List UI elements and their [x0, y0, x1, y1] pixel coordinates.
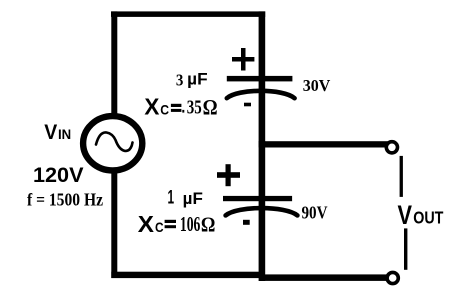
C2 plus sign — [217, 164, 240, 186]
wire right branch upper (top rail through C1 to middle node) — [259, 11, 266, 147]
wire middle node to output terminal — [259, 141, 388, 147]
capacitor C1 flat plate — [227, 76, 293, 82]
svg-text:106: 106 — [180, 212, 201, 236]
svg-text:µF: µF — [187, 69, 207, 88]
label VOUT — [398, 200, 444, 230]
svg-text:Ω: Ω — [201, 213, 216, 237]
svg-text:X: X — [144, 93, 160, 119]
wire right branch lower (middle node through C2 to bottom rail) — [259, 141, 266, 281]
label VIN — [44, 120, 71, 144]
svg-text:f = 1500 Hz: f = 1500 Hz — [27, 190, 103, 210]
label XC=.35 ohm — [144, 93, 217, 119]
svg-text:V: V — [44, 120, 58, 144]
wire left vertical bottom segment — [111, 171, 117, 278]
AC source V1 sine wave — [96, 132, 133, 151]
svg-text:µF: µF — [183, 189, 203, 208]
C1 minus sign — [244, 103, 251, 107]
svg-text:IN: IN — [58, 126, 71, 142]
terminal node top output — [386, 142, 397, 153]
svg-text:C: C — [160, 101, 169, 117]
C1 plus sign — [232, 48, 254, 71]
label 3 uF — [176, 69, 208, 89]
wire top rail — [111, 11, 265, 17]
wire bottom rail right segment — [259, 274, 387, 281]
terminal node bottom output — [387, 272, 398, 283]
AC source V1 circle — [83, 116, 142, 170]
svg-text:35: 35 — [187, 96, 202, 118]
wire bottom rail left segment — [111, 272, 262, 278]
wire thin link above bottom terminal — [404, 228, 407, 269]
svg-text:Ω: Ω — [203, 94, 218, 119]
capacitor C1 curved plate — [227, 91, 295, 98]
capacitor C2 curved plate — [226, 208, 298, 215]
capacitor C2 flat plate — [223, 196, 292, 201]
svg-text:30V: 30V — [303, 76, 331, 95]
svg-text:C: C — [155, 219, 164, 235]
label XC= 106 ohm — [138, 211, 216, 237]
C2 minus sign — [243, 220, 250, 225]
svg-text:120V: 120V — [33, 163, 84, 187]
svg-text:1: 1 — [168, 188, 175, 209]
svg-text:3: 3 — [176, 71, 184, 90]
svg-text:V: V — [398, 200, 413, 230]
wire left vertical top segment — [111, 11, 117, 115]
label 1 uF — [168, 188, 203, 209]
svg-text:90V: 90V — [302, 202, 328, 222]
svg-text:X: X — [138, 211, 155, 237]
wire thin link below top terminal — [400, 156, 403, 197]
svg-text:OUT: OUT — [413, 208, 444, 228]
